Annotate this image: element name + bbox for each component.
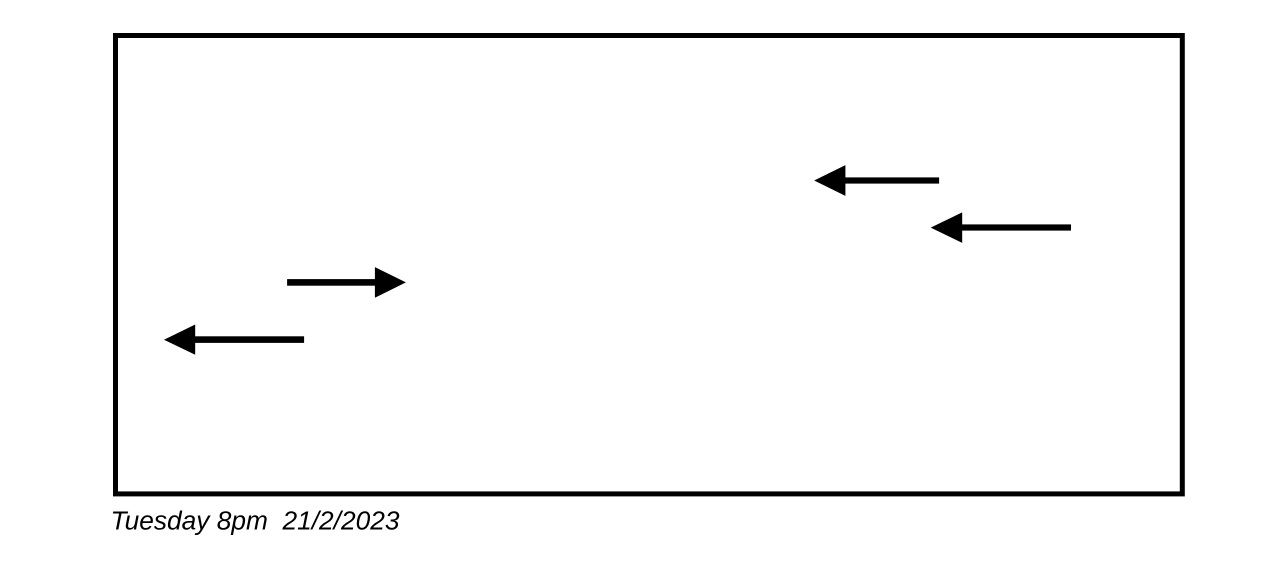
arrow A4 (points left, lower left) [164,325,304,355]
arrow A1 (points left, upper right) [814,165,939,196]
arrow A3 (points right, middle left) [287,267,406,298]
svg-text:Tuesday 8pm 21/2/2023: Tuesday 8pm 21/2/2023 [111,505,400,535]
arrow A2 (points left, right side) [931,212,1071,243]
caption: Tuesday 8pm 21/2/2023 [111,505,400,535]
